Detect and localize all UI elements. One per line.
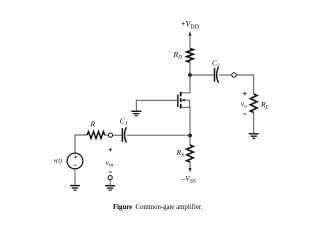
svg-text:RS: RS [176, 148, 185, 159]
svg-text:C2: C2 [212, 59, 220, 70]
node +VDD label [181, 20, 199, 31]
transistor M1 body arrow [181, 99, 189, 107]
svg-text:Figure Common-gate amplifier.: Figure Common-gate amplifier. [113, 204, 203, 211]
node source junction dot [188, 134, 192, 138]
wire source node to RS [189, 136, 191, 146]
wire vin terminal to ground [109, 180, 111, 186]
label - of vo [243, 113, 246, 115]
wire drain node down to transistor drain [182, 75, 191, 93]
resistor RS [187, 145, 194, 162]
resistor RL [250, 94, 257, 113]
svg-text:R: R [90, 120, 96, 129]
ground at gate [131, 111, 141, 116]
svg-text:vin: vin [106, 158, 114, 169]
resistor R [87, 132, 104, 139]
resistor RD [187, 49, 194, 63]
wire source to R [75, 135, 87, 153]
ground under RL [249, 134, 259, 139]
label + inside source [74, 156, 77, 159]
svg-text:vo: vo [241, 100, 247, 110]
transistor M1 channel drain segment [180, 92, 182, 97]
wire drain node to C2 [190, 74, 214, 76]
wire C2 to output terminal [219, 74, 232, 76]
wire input terminal to C1 [113, 134, 122, 136]
wire source to ground [74, 169, 76, 186]
capacitor C2 [215, 67, 219, 83]
capacitor C1 [122, 127, 126, 142]
output terminal circle [232, 73, 236, 77]
ground under source [70, 186, 80, 191]
wire RD bottom to drain node [189, 62, 191, 75]
input terminal circle [108, 133, 112, 137]
svg-text:RL: RL [260, 100, 269, 111]
transistor M1 channel body segment [180, 98, 182, 102]
label + of vo [243, 92, 247, 96]
node drain junction dot [188, 73, 192, 77]
svg-text:RD: RD [173, 50, 183, 61]
wire gate to ground [136, 100, 178, 111]
transistor M1 gate plate [177, 95, 179, 107]
svg-text:–VSS: –VSS [181, 174, 196, 185]
VDD supply arrow [189, 31, 192, 48]
wire RL to ground [253, 113, 255, 134]
ground under vin terminal [105, 186, 115, 191]
svg-text:+VDD: +VDD [181, 20, 199, 31]
wire R to input terminal [105, 134, 109, 136]
wire output terminal to RL [236, 75, 254, 94]
wire transistor source down to source node [182, 107, 191, 135]
svg-text:v(t): v(t) [53, 157, 62, 164]
label - inside source [74, 164, 77, 166]
svg-text:C1: C1 [120, 117, 128, 128]
wire C1 to source node [127, 134, 190, 136]
label + of vin [109, 148, 113, 152]
transistor M1 channel source segment [180, 104, 182, 109]
VSS supply arrow [189, 162, 192, 173]
voltage source v(t) [67, 153, 83, 169]
vin ground terminal circle [108, 176, 112, 180]
label - of vin [109, 171, 112, 173]
